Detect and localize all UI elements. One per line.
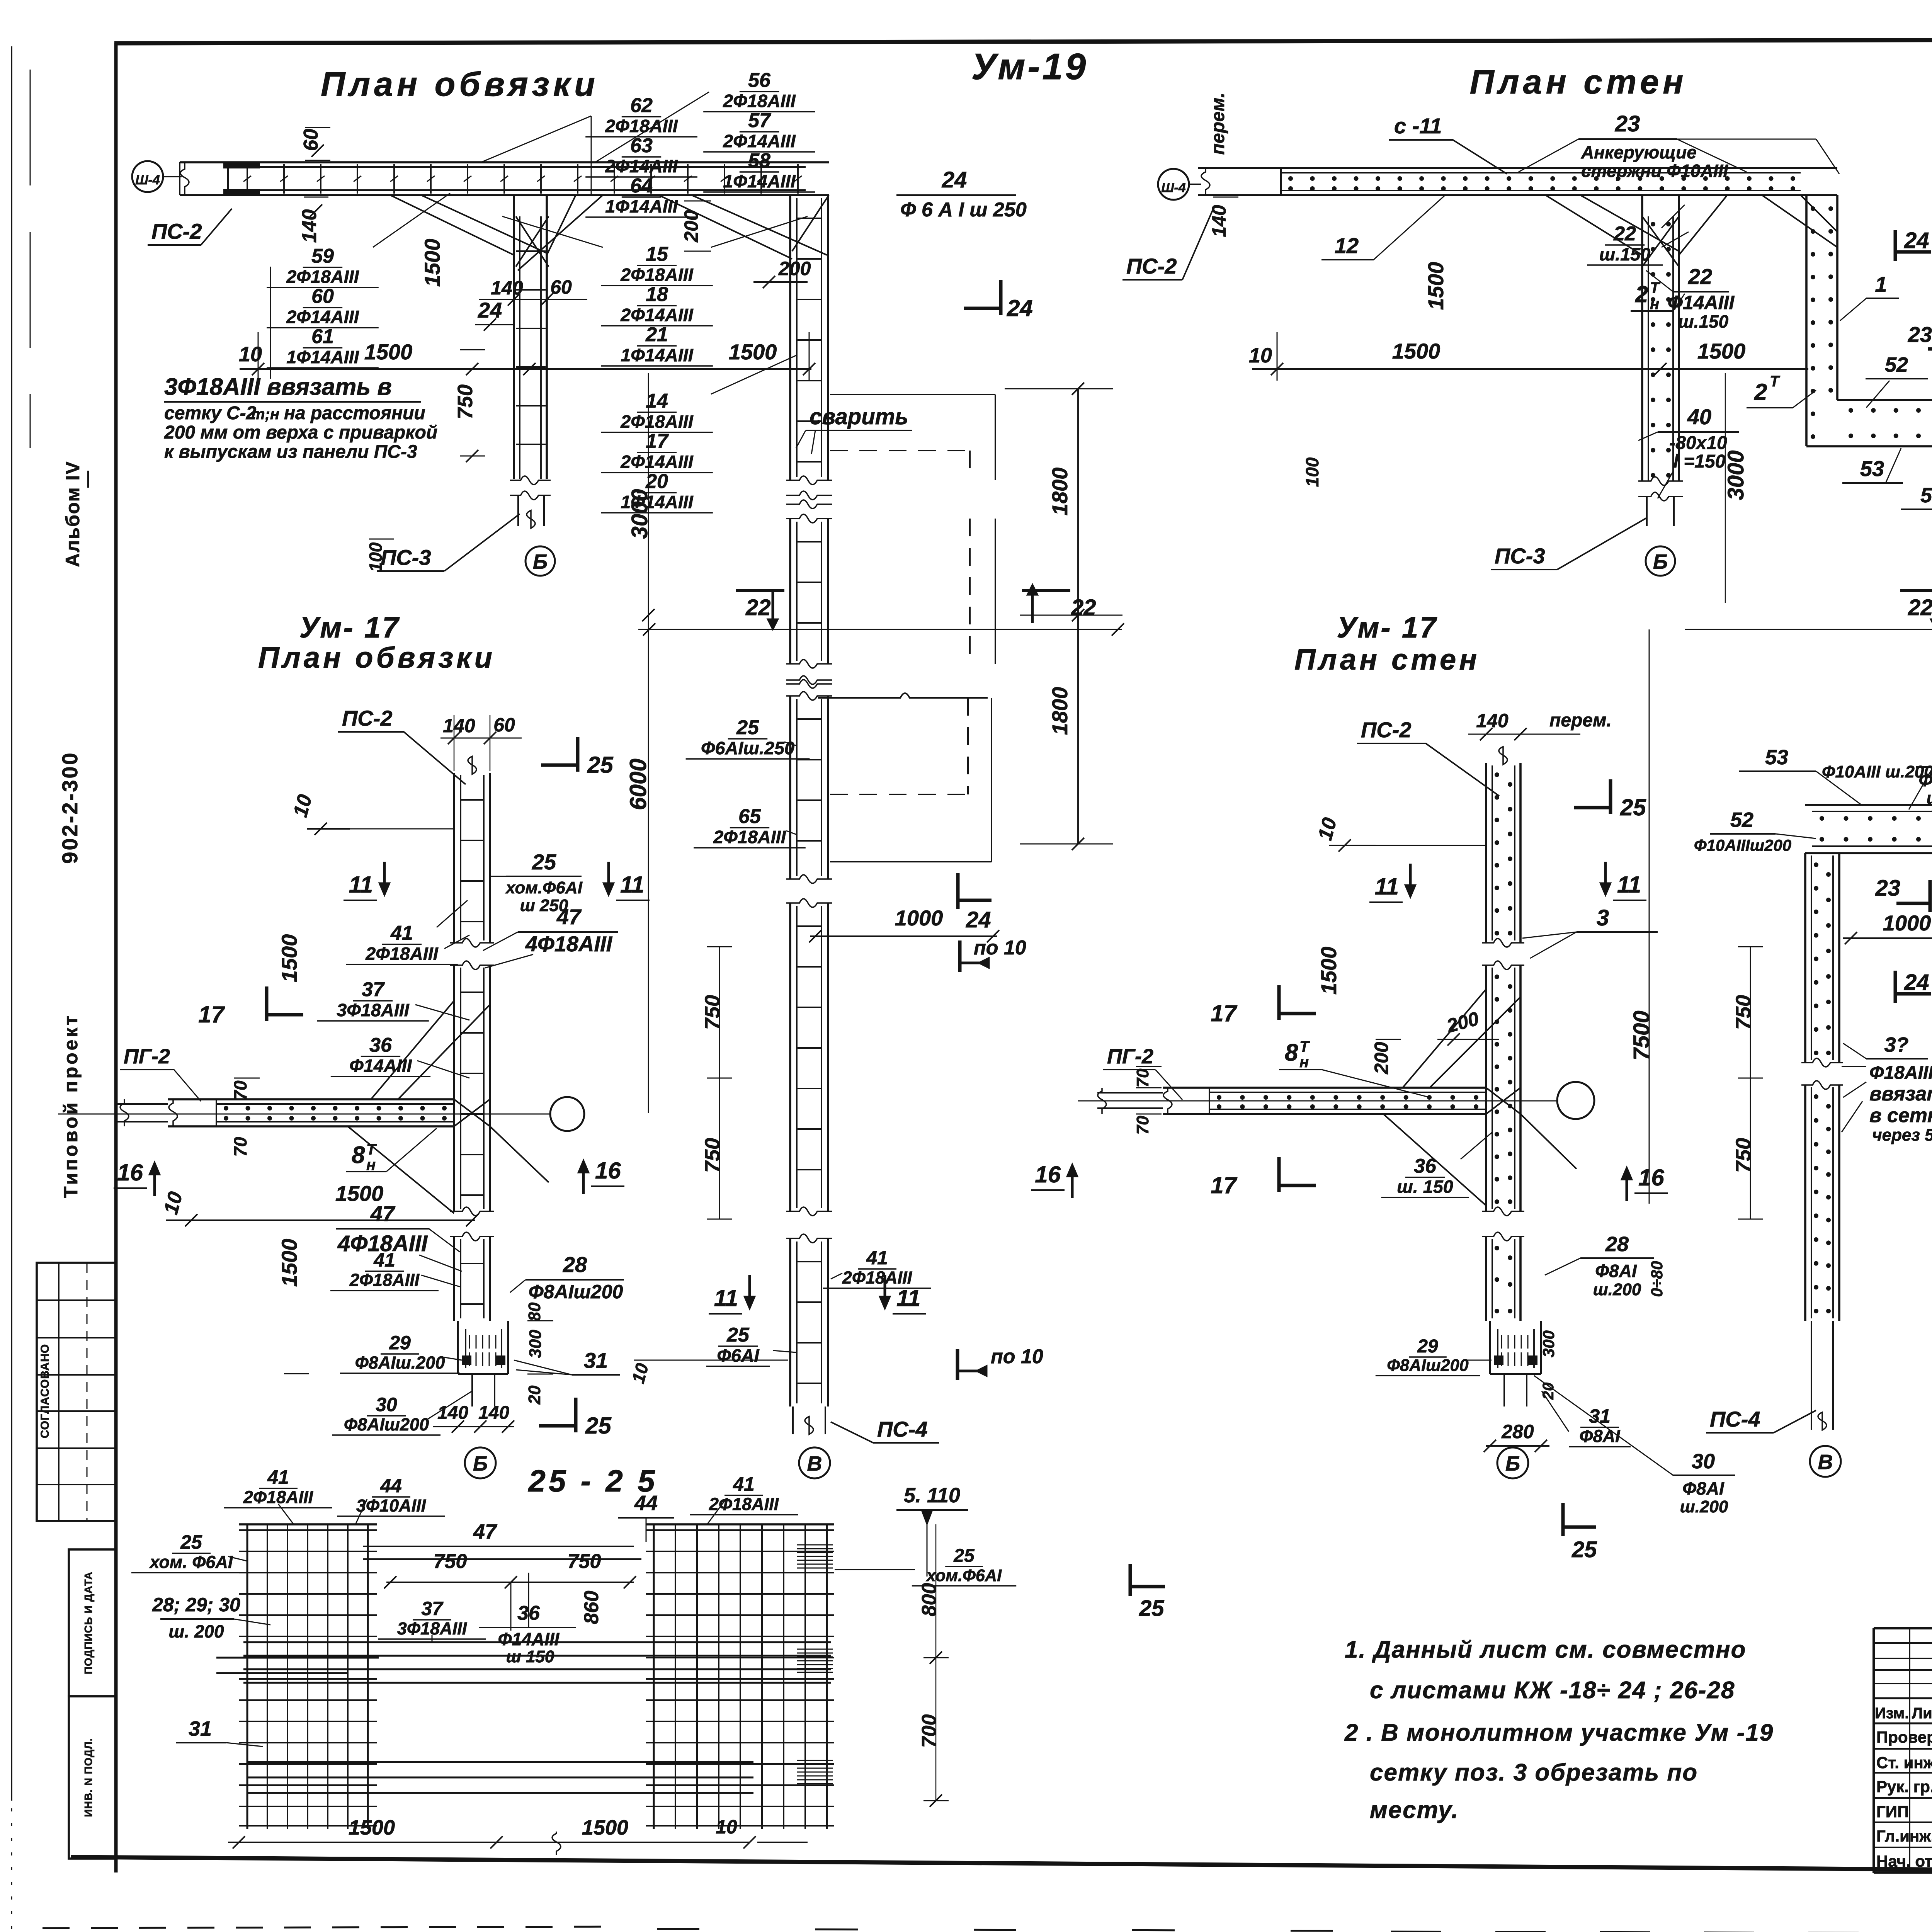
svg-text:24: 24	[478, 298, 502, 322]
view marker 11 pair Ум-17 обвязки	[383, 862, 386, 889]
svg-text:24: 24	[1904, 970, 1929, 995]
svg-text:1Ф14АIII: 1Ф14АIII	[605, 196, 678, 216]
horizontal wall band Ум-17 стен	[1163, 1087, 1486, 1089]
svg-text:25: 25	[1571, 1537, 1597, 1562]
svg-text:47: 47	[370, 1201, 396, 1226]
svg-text:750: 750	[1732, 1138, 1755, 1173]
svg-text:61: 61	[311, 325, 334, 348]
svg-text:17: 17	[646, 430, 669, 452]
svg-text:В: В	[1818, 1451, 1833, 1474]
right leg and step wall drawing2	[1805, 195, 1808, 446]
svg-text:хом. Ф6АI: хом. Ф6АI	[149, 1552, 233, 1572]
svg-text:Т: Т	[1770, 373, 1781, 390]
svg-text:1410: 1410	[1928, 1128, 1932, 1175]
svg-text:15: 15	[646, 243, 668, 265]
section marker 24 Ум-17 стен	[1894, 971, 1897, 1003]
svg-text:29: 29	[1417, 1336, 1438, 1357]
svg-text:ш.150: ш.150	[1678, 311, 1729, 332]
svg-text:31: 31	[584, 1348, 608, 1372]
svg-text:800: 800	[918, 1583, 940, 1617]
svg-text:ввязать: ввязать	[1869, 1083, 1932, 1105]
svg-text:750: 750	[434, 1550, 467, 1573]
hole circle Ум-17 стен	[1557, 1082, 1594, 1119]
svg-text:25: 25	[532, 850, 556, 874]
svg-text:Т: Т	[366, 1141, 377, 1158]
svg-text:140: 140	[1208, 205, 1230, 237]
axis circle В Ум-17 стен	[1810, 1446, 1841, 1477]
svg-text:53: 53	[1860, 456, 1884, 481]
svg-text:Ф 6 А I ш 250: Ф 6 А I ш 250	[900, 199, 1027, 221]
axis circle Б Ум-17 стен	[1497, 1447, 1528, 1478]
diagonal braces drawing2	[1546, 195, 1642, 255]
svg-text:ПС-2: ПС-2	[1126, 254, 1177, 278]
svg-text:1500: 1500	[1316, 947, 1341, 995]
svg-text:Ш-4: Ш-4	[135, 173, 160, 187]
right wall piece Ум-17 стен: vertical leg	[1804, 853, 1806, 1063]
svg-text:60: 60	[550, 276, 572, 298]
view marker 16 right Ум-17	[582, 1167, 585, 1194]
svg-text:100: 100	[366, 542, 386, 572]
svg-text:140: 140	[437, 1403, 468, 1423]
svg-text:14: 14	[646, 390, 668, 412]
svg-text:750: 750	[454, 384, 477, 419]
svg-text:Ум-19: Ум-19	[971, 46, 1088, 87]
title block vertical splits left	[1909, 1628, 1910, 1872]
centerline Ум-17 стен	[1078, 1100, 1557, 1102]
svg-text:140: 140	[298, 209, 321, 243]
section marker 25 Ум-17	[576, 737, 580, 772]
25-25 middle horizontal bars	[243, 1641, 831, 1643]
svg-text:70: 70	[230, 1080, 250, 1100]
junction diagonals Ум-17 обвязки	[371, 1001, 454, 1099]
svg-text:с -11: с -11	[1394, 114, 1442, 138]
svg-text:300: 300	[526, 1330, 545, 1358]
axis circle В drawing1	[799, 1447, 830, 1478]
svg-text:ИНВ. N ПОДЛ.: ИНВ. N ПОДЛ.	[82, 1738, 94, 1817]
footing detail Ум-17 обвязки	[457, 1321, 459, 1374]
25-25 right grid block	[653, 1524, 655, 1829]
svg-text:25: 25	[587, 752, 614, 778]
svg-text:57: 57	[748, 109, 771, 132]
dashed box B drawing1	[995, 519, 996, 664]
svg-text:ПОДПИСЬ И ДАТА: ПОДПИСЬ И ДАТА	[82, 1571, 94, 1674]
svg-text:Б: Б	[1505, 1452, 1520, 1475]
svg-text:16: 16	[595, 1158, 621, 1184]
svg-text:7500: 7500	[1629, 1010, 1654, 1060]
svg-text:41: 41	[390, 922, 413, 944]
svg-text:750: 750	[1732, 995, 1755, 1030]
svg-text:1000: 1000	[895, 906, 943, 930]
svg-text:месту.: месту.	[1370, 1797, 1459, 1823]
svg-text:37: 37	[421, 1598, 444, 1619]
sidebar box Инв N подл	[69, 1696, 116, 1859]
svg-text:24: 24	[1007, 295, 1033, 321]
svg-text:64: 64	[630, 175, 653, 197]
svg-text:ш.200: ш.200	[1593, 1280, 1641, 1299]
svg-text:52: 52	[1885, 353, 1908, 376]
svg-text:План обвязки: План обвязки	[321, 65, 599, 103]
svg-text:2Ф18АIII: 2Ф18АIII	[842, 1268, 913, 1287]
svg-text:5. 110: 5. 110	[904, 1484, 960, 1507]
svg-text:Ф14АIII: Ф14АIII	[349, 1056, 412, 1076]
hole circle Ум-17 обвязки	[550, 1097, 584, 1131]
svg-text:к выпускам из панели ПС-3: к выпускам из панели ПС-3	[164, 442, 417, 462]
svg-text:1Ф14АIII: 1Ф14АIII	[723, 171, 796, 191]
dim 1800 upper	[1077, 389, 1079, 844]
axis circle Б drawing1	[526, 546, 555, 576]
svg-text:2Ф14АIII: 2Ф14АIII	[723, 131, 796, 151]
svg-text:н: н	[1299, 1054, 1309, 1071]
diagonal braces near center leg drawing1	[390, 195, 514, 255]
svg-text:25: 25	[585, 1413, 612, 1439]
svg-text:36: 36	[1414, 1155, 1437, 1177]
svg-text:сетку С-2: сетку С-2	[164, 403, 257, 423]
svg-text:12: 12	[1335, 233, 1359, 258]
centerline drawing2	[1685, 629, 1932, 630]
svg-text:280: 280	[1501, 1421, 1534, 1442]
stirrup ticks on band drawing1	[247, 164, 248, 194]
svg-text:Ум- 17: Ум- 17	[1337, 611, 1438, 644]
footing detail Ум-17 стен	[1489, 1321, 1491, 1374]
svg-text:902-2-300: 902-2-300	[58, 751, 82, 864]
svg-text:1500: 1500	[1423, 262, 1448, 310]
svg-text:Ф8АIш200: Ф8АIш200	[344, 1415, 429, 1434]
svg-text:1500: 1500	[364, 340, 413, 364]
svg-text:58: 58	[748, 150, 770, 172]
svg-text:ПГ-2: ПГ-2	[124, 1045, 170, 1068]
svg-text:ПС-3: ПС-3	[381, 545, 431, 570]
svg-text:н: н	[1650, 296, 1659, 313]
long right wall drawing1	[789, 195, 791, 480]
svg-text:4Ф18АIII: 4Ф18АIII	[525, 932, 613, 956]
page frame border bottom	[71, 1857, 1932, 1875]
junction diagonals Ум-17 стен	[1403, 989, 1486, 1088]
svg-text:16: 16	[1638, 1165, 1664, 1190]
svg-text:2 . В монолитном участке Ум: 2 . В монолитном участке Ум -19	[1344, 1719, 1774, 1746]
title block header row	[1874, 1697, 1932, 1699]
svg-text:200 мм от верха с приваркой: 200 мм от верха с приваркой	[164, 422, 437, 443]
svg-text:3000: 3000	[1723, 450, 1748, 500]
svg-text:Ф6АI: Ф6АI	[717, 1345, 759, 1366]
svg-text:11: 11	[714, 1285, 738, 1311]
svg-text:Рук. гр.: Рук. гр.	[1876, 1777, 1932, 1796]
axis circle Ш-4 drawing2	[1158, 169, 1189, 200]
svg-text:2Ф18АIII: 2Ф18АIII	[723, 91, 796, 111]
svg-text:22: 22	[1688, 264, 1712, 289]
svg-text:ПС-4: ПС-4	[877, 1417, 928, 1441]
section marker 24 bottom drawing1	[956, 873, 960, 909]
svg-text:21: 21	[645, 323, 668, 346]
svg-text:Изм.: Изм.	[1875, 1705, 1909, 1722]
svg-text:Ф8АIш200: Ф8АIш200	[529, 1281, 623, 1303]
svg-text:ПС-2: ПС-2	[151, 219, 202, 243]
svg-text:-80x10: -80x10	[1669, 433, 1727, 453]
title block outline	[1874, 1627, 1932, 1629]
svg-text:80: 80	[525, 1302, 544, 1321]
svg-text:8: 8	[1285, 1039, 1298, 1066]
svg-text:1500: 1500	[277, 1239, 301, 1287]
svg-text:1500: 1500	[1392, 339, 1440, 363]
svg-text:2Ф18АIII: 2Ф18АIII	[620, 265, 693, 285]
horizontal wall band Ум-17 обвязки	[168, 1098, 454, 1100]
svg-text:17: 17	[1211, 1000, 1237, 1026]
svg-text:47: 47	[473, 1520, 498, 1543]
svg-text:сетку поз. 3 обрезать по: сетку поз. 3 обрезать по	[1370, 1759, 1698, 1786]
svg-text:Альбом IV: Альбом IV	[62, 461, 83, 567]
bottom scan dash line	[43, 1927, 618, 1928]
svg-text:Ф14АIII: Ф14АIII	[498, 1629, 560, 1649]
svg-text:60: 60	[493, 714, 515, 736]
svg-text:10: 10	[716, 1816, 737, 1838]
svg-text:70: 70	[230, 1137, 250, 1157]
svg-text:Ф8АIш.200: Ф8АIш.200	[355, 1353, 445, 1372]
view marker 11 pair Ум-17 стен	[1409, 864, 1412, 891]
svg-text:51: 51	[1920, 484, 1932, 507]
svg-text:750: 750	[568, 1550, 601, 1573]
section marker 25 bottom middle	[1129, 1564, 1132, 1596]
svg-text:60: 60	[311, 285, 334, 308]
svg-text:ш.200: ш.200	[1680, 1497, 1728, 1516]
svg-text:860: 860	[580, 1591, 603, 1624]
svg-text:СОГЛАСОВАНО: СОГЛАСОВАНО	[39, 1344, 51, 1439]
svg-text:Анкерующие: Анкерующие	[1581, 142, 1697, 162]
svg-text:ПС-2: ПС-2	[342, 706, 393, 730]
svg-text:44: 44	[634, 1492, 658, 1515]
svg-text:22: 22	[1613, 223, 1636, 245]
svg-text:Ф6АIш.250: Ф6АIш.250	[701, 738, 794, 758]
section marker 25 bottom стен	[1561, 1503, 1565, 1536]
svg-text:23: 23	[1908, 322, 1932, 347]
svg-text:План стен: План стен	[1470, 63, 1687, 101]
grid axis circle Ш-4 drawing1	[132, 161, 163, 192]
svg-text:Ф8АIш200: Ф8АIш200	[1387, 1356, 1468, 1375]
svg-text:l =150: l =150	[1673, 451, 1726, 472]
signature rows	[1874, 1723, 1932, 1724]
svg-text:сварить: сварить	[810, 404, 908, 429]
svg-text:на расстоянии: на расстоянии	[284, 403, 425, 423]
svg-text:2: 2	[1635, 281, 1648, 307]
marker по 10 drawing1	[958, 940, 962, 972]
svg-text:Ш-4: Ш-4	[1161, 180, 1186, 195]
25-25 left grid block	[247, 1524, 248, 1829]
svg-text:25: 25	[180, 1531, 202, 1553]
svg-text:41: 41	[373, 1249, 395, 1271]
svg-text:Ф8АI: Ф8АI	[1682, 1478, 1725, 1498]
svg-text:28: 28	[1605, 1233, 1629, 1256]
svg-text:1000: 1000	[1883, 911, 1931, 935]
svg-text:750: 750	[701, 995, 724, 1030]
wall band horizontal План обвязки	[180, 161, 829, 163]
svg-text:2Ф14АIII: 2Ф14АIII	[620, 452, 693, 472]
svg-text:22: 22	[745, 595, 771, 620]
svg-text:3Ф18АIII ввязать в: 3Ф18АIII ввязать в	[164, 374, 392, 400]
svg-text:2: 2	[1754, 379, 1767, 405]
page frame border top	[114, 39, 1932, 43]
svg-text:ГИП: ГИП	[1876, 1803, 1909, 1821]
svg-text:17: 17	[198, 1002, 225, 1027]
svg-text:29: 29	[389, 1332, 411, 1354]
svg-text:65: 65	[738, 805, 761, 828]
svg-text:3Ф10АIII: 3Ф10АIII	[356, 1496, 427, 1515]
svg-text:70: 70	[1133, 1116, 1152, 1134]
svg-text:200: 200	[680, 210, 702, 243]
svg-text:1500: 1500	[277, 934, 301, 983]
dashed box A drawing1	[830, 394, 995, 395]
svg-text:300: 300	[1539, 1330, 1558, 1357]
svg-text:1500: 1500	[349, 1816, 395, 1839]
svg-text:ПС-2: ПС-2	[1361, 718, 1412, 742]
svg-text:23: 23	[1615, 111, 1640, 136]
section marker 17 Ум-17 upper	[265, 986, 269, 1021]
svg-text:по 10: по 10	[991, 1345, 1043, 1368]
svg-text:1800: 1800	[1048, 687, 1072, 735]
svg-text:ПС-3: ПС-3	[1495, 544, 1545, 568]
svg-text:План стен: План стен	[1294, 643, 1480, 676]
svg-text:1. Данный лист см. совместно: 1. Данный лист см. совместно	[1345, 1636, 1747, 1663]
svg-text:24: 24	[942, 167, 967, 192]
svg-text:Лист: Лист	[1912, 1705, 1932, 1722]
marker по 10 near В strip	[956, 1349, 959, 1380]
svg-text:по 10: по 10	[974, 937, 1026, 959]
svg-text:хом.Ф6АI: хом.Ф6АI	[505, 878, 583, 897]
view marker 11 pair near В strip	[748, 1275, 751, 1302]
svg-text:1500: 1500	[1697, 339, 1746, 363]
svg-text:1: 1	[1875, 272, 1887, 296]
svg-text:через 500: через 500	[1872, 1126, 1932, 1145]
svg-text:25: 25	[1139, 1596, 1164, 1621]
svg-text:Проверил: Проверил	[1876, 1728, 1932, 1746]
svg-text:Типовой проект: Типовой проект	[60, 1014, 82, 1198]
svg-text:11: 11	[1617, 872, 1641, 898]
svg-text:в сетку 3: в сетку 3	[1869, 1104, 1932, 1127]
section marker 25 bottom Ум-17	[574, 1398, 578, 1432]
svg-text:23: 23	[1875, 876, 1900, 901]
svg-text:31: 31	[1589, 1405, 1611, 1427]
svg-text:100: 100	[1302, 457, 1322, 487]
svg-text:40: 40	[1687, 405, 1711, 429]
svg-text:17: 17	[1211, 1172, 1237, 1198]
svg-text:28: 28	[563, 1252, 587, 1277]
svg-text:ш. 150: ш. 150	[1397, 1177, 1453, 1197]
svg-text:24: 24	[1904, 228, 1929, 253]
svg-text:6000: 6000	[625, 759, 651, 810]
svg-text:1500: 1500	[420, 239, 444, 287]
center leg wall drawing2	[1641, 195, 1643, 481]
svg-text:1800: 1800	[1048, 468, 1072, 516]
svg-text:41: 41	[733, 1473, 755, 1495]
svg-text:70: 70	[1133, 1068, 1152, 1087]
svg-text:ПГ-2: ПГ-2	[1107, 1045, 1153, 1068]
svg-text:перем.: перем.	[1208, 93, 1228, 155]
svg-text:ш.200: ш.200	[1927, 789, 1932, 808]
svg-text:Т: Т	[1650, 279, 1661, 296]
svg-text:перем.: перем.	[1549, 710, 1612, 731]
svg-text:Нач. отд.: Нач. отд.	[1876, 1852, 1932, 1870]
svg-text:2Ф18АIII: 2Ф18АIII	[709, 1494, 779, 1514]
view marker 16 pair Ум-17 стен	[1071, 1171, 1074, 1198]
svg-text:22: 22	[1071, 595, 1096, 620]
svg-text:52: 52	[1730, 808, 1753, 832]
sidebar box Подпись и дата	[69, 1549, 116, 1696]
svg-text:2Ф14АIII: 2Ф14АIII	[286, 307, 359, 327]
svg-text:2Ф14АIII: 2Ф14АIII	[605, 156, 678, 176]
svg-text:11: 11	[1375, 874, 1399, 900]
svg-text:1Ф14АIII: 1Ф14АIII	[621, 345, 693, 365]
svg-text:44: 44	[380, 1475, 402, 1497]
svg-text:16: 16	[117, 1160, 143, 1185]
section marker 17 Ум-17 стен	[1277, 985, 1281, 1020]
svg-text:2Ф18АIII: 2Ф18АIII	[605, 116, 678, 136]
bottom dim 1500 1500 10 25-25	[228, 1842, 750, 1843]
wall band horizontal План стен	[1198, 167, 1837, 169]
section marker 24 top drawing2 area	[999, 280, 1003, 315]
svg-text:18: 18	[646, 283, 668, 306]
axis circle Б drawing2	[1646, 546, 1675, 576]
svg-text:ПС-4: ПС-4	[1710, 1407, 1760, 1431]
svg-text:200: 200	[1371, 1042, 1392, 1075]
view marker 16 left Ум-17	[153, 1169, 156, 1196]
svg-text:3?: 3?	[1884, 1033, 1908, 1056]
svg-text:2Ф18АIII: 2Ф18АIII	[286, 267, 359, 287]
svg-text:1500: 1500	[582, 1816, 628, 1839]
svg-text:3Ф18АIII: 3Ф18АIII	[337, 1000, 409, 1020]
svg-text:53: 53	[1765, 746, 1788, 769]
svg-text:36: 36	[369, 1034, 392, 1056]
svg-text:11: 11	[620, 872, 644, 898]
svg-text:30: 30	[376, 1394, 397, 1415]
svg-text:37: 37	[362, 978, 385, 1001]
svg-text:Ст. инж.: Ст. инж.	[1876, 1753, 1932, 1772]
svg-text:30: 30	[1692, 1450, 1715, 1473]
svg-text:Ум- 17: Ум- 17	[299, 611, 400, 644]
svg-text:41: 41	[866, 1247, 888, 1269]
svg-text:750: 750	[701, 1138, 724, 1173]
svg-text:25: 25	[1620, 794, 1646, 820]
svg-text:22: 22	[1908, 595, 1932, 620]
rebar dots in band drawing2	[1288, 176, 1293, 181]
svg-text:Ф8АI: Ф8АI	[1595, 1261, 1637, 1281]
svg-text:47: 47	[556, 905, 582, 929]
svg-text:План обвязки: План обвязки	[258, 641, 495, 674]
svg-text:Ф14АIII: Ф14АIII	[1668, 292, 1735, 313]
svg-text:В: В	[807, 1452, 822, 1475]
svg-text:Б: Б	[533, 550, 548, 573]
dashed box C drawing1	[818, 693, 988, 698]
svg-text:24: 24	[966, 907, 991, 932]
centerline Ум-17 обвязки	[58, 1114, 550, 1115]
right wall piece Ум-17 стен: step band	[1805, 804, 1932, 806]
svg-text:31: 31	[189, 1717, 212, 1740]
svg-text:16: 16	[1035, 1162, 1061, 1187]
vertical wall Ум-17 стен	[1485, 763, 1487, 943]
sheet scan edge line left	[11, 46, 12, 1801]
25-25 comb details right block	[797, 1544, 833, 1546]
svg-text:хом.Ф6АI: хом.Ф6АI	[926, 1566, 1002, 1585]
svg-text:200: 200	[778, 258, 811, 279]
svg-text:25: 25	[736, 716, 759, 739]
svg-text:с листами КЖ -18÷ 24 ; 26-2: с листами КЖ -18÷ 24 ; 26-28	[1370, 1677, 1735, 1704]
section marker 25 Ум-17 стен	[1609, 779, 1612, 814]
svg-text:700: 700	[918, 1714, 940, 1748]
svg-text:т;н: т;н	[251, 406, 279, 423]
svg-text:28; 29; 30: 28; 29; 30	[152, 1594, 240, 1616]
svg-text:стержни Ф10АIII: стержни Ф10АIII	[1581, 161, 1728, 181]
svg-text:2Ф18АIII: 2Ф18АIII	[713, 827, 786, 847]
svg-text:20: 20	[525, 1385, 544, 1405]
svg-text:1Ф14АIII: 1Ф14АIII	[286, 347, 359, 367]
svg-text:59: 59	[311, 245, 334, 267]
svg-text:Б: Б	[1653, 550, 1668, 573]
